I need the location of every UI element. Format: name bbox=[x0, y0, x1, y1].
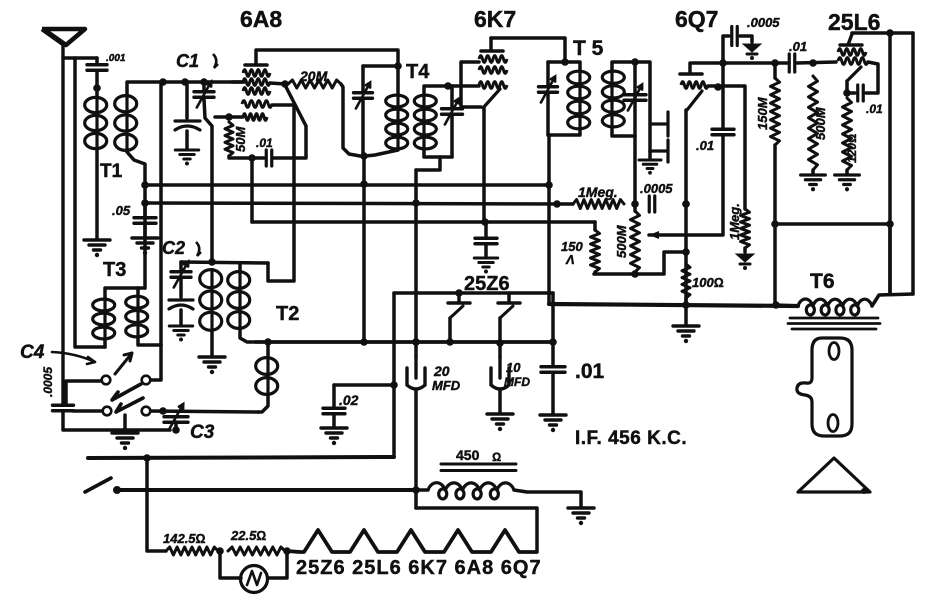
6K7 plate stub bbox=[489, 38, 493, 50]
node cath2 bus bbox=[496, 339, 504, 347]
node .02 tap bbox=[390, 381, 398, 389]
svg-text:100Ω: 100Ω bbox=[692, 275, 724, 290]
svg-text:450: 450 bbox=[456, 447, 480, 463]
wire volume bottom loop bbox=[594, 252, 686, 274]
wire T4 primary neck bbox=[396, 66, 400, 94]
svg-text:20: 20 bbox=[433, 363, 450, 379]
svg-text:6K7: 6K7 bbox=[474, 6, 516, 32]
ground band switch bbox=[112, 433, 138, 443]
wire 6A8 grid2 to 20M bbox=[270, 83, 285, 84]
wire 50M bottom bbox=[229, 156, 252, 158]
lamp branch right bbox=[268, 551, 287, 578]
svg-text:.001: .001 bbox=[106, 53, 126, 64]
switch contact bbox=[102, 376, 111, 385]
wire 6K7 plate to T5 bbox=[491, 38, 565, 62]
capacitor .05 lead bbox=[143, 203, 147, 216]
capacitor .001 bbox=[87, 65, 107, 71]
capacitor .0005 AVC bbox=[649, 196, 655, 212]
label C1 pointer bbox=[213, 54, 218, 68]
wire 6Q7 cathode down bbox=[684, 110, 688, 305]
wire 25Z6 left side bbox=[392, 293, 396, 457]
capacitor .01 output bbox=[789, 54, 795, 72]
capacitor C1 arrow bbox=[197, 82, 211, 108]
wire .0005 to ground bbox=[740, 36, 752, 42]
transformer T1 secondary winding bbox=[115, 96, 137, 112]
wire T2 secondary top bbox=[238, 263, 242, 270]
25L6 grid row 1 bbox=[838, 49, 866, 56]
node T4 sec top bbox=[444, 82, 452, 90]
6A8 grid row 2 bbox=[243, 79, 270, 86]
node .05 junction bbox=[141, 199, 149, 207]
switch contact bbox=[103, 407, 112, 416]
node lamp right bbox=[283, 547, 291, 555]
capacitor .02 bbox=[323, 408, 345, 414]
wire tickler bottom bbox=[258, 396, 268, 412]
25L6 cathode bbox=[847, 67, 861, 81]
node field coil left bbox=[412, 486, 420, 494]
capacitor C2 trimmer bbox=[169, 300, 193, 309]
ground T1 primary bbox=[84, 240, 110, 250]
wire T4 sec to 6K7 grid bbox=[448, 84, 479, 88]
120ohm to ground bbox=[845, 170, 849, 173]
svg-text:C2: C2 bbox=[162, 238, 185, 258]
6A8 signal grid row bbox=[243, 114, 267, 121]
node 6Q7 cath/H2 bbox=[682, 200, 690, 208]
svg-text:C1: C1 bbox=[176, 51, 199, 71]
antenna bbox=[42, 29, 85, 45]
node 6Q7 cath jog bbox=[682, 248, 690, 256]
25Z6 plate 2 bbox=[498, 301, 520, 304]
wire T1 primary to ground bbox=[95, 150, 99, 238]
node .0005/cath bbox=[682, 200, 690, 208]
svg-text:6Q7: 6Q7 bbox=[675, 6, 718, 32]
wire band select vertical bbox=[159, 82, 163, 345]
6K7 grid row 2 bbox=[479, 67, 507, 74]
100ohm to bus bbox=[684, 298, 688, 305]
capacitor C1 trimmer bbox=[175, 121, 200, 130]
capacitor .01 filter bbox=[541, 367, 565, 373]
wire 25Z6 right side bbox=[551, 293, 555, 342]
capacitor .01f to ground bbox=[551, 374, 555, 413]
wire 25Z6 cathode 1 bbox=[448, 318, 452, 342]
wire 6A8 plate to T4 bbox=[257, 50, 398, 64]
capacitor T5 sec arrow bbox=[628, 85, 642, 111]
capacitor C3 arrow bbox=[169, 404, 183, 430]
node output grid return bbox=[886, 220, 894, 228]
svg-text:.01: .01 bbox=[256, 136, 273, 150]
node 25Z6 plate 1 bbox=[455, 289, 463, 297]
svg-text:.01: .01 bbox=[789, 39, 807, 54]
wire .02 branch bbox=[334, 383, 394, 387]
capacitor T4 sec top lead bbox=[450, 86, 454, 108]
node bus/x416 bbox=[412, 338, 420, 346]
capacitor C3 stem bbox=[174, 422, 178, 430]
wire 150M top bbox=[773, 63, 777, 78]
capacitor .01 coupling bbox=[712, 129, 734, 135]
wire T1 secondary bottom bbox=[127, 152, 145, 203]
svg-text:.0005: .0005 bbox=[41, 367, 55, 397]
transformer T4 secondary winding bbox=[414, 95, 436, 107]
transformer T3 left winding bbox=[93, 299, 115, 311]
transformer T5 primary winding bbox=[568, 71, 590, 84]
node cath1 bus bbox=[446, 338, 454, 346]
ground 500M bbox=[801, 175, 826, 185]
25Z6 cathode 1 bbox=[450, 306, 463, 318]
svg-text:C3: C3 bbox=[190, 422, 215, 443]
transformer T2 primary winding bbox=[200, 270, 222, 288]
ground .01 filter bbox=[540, 415, 566, 425]
node 150M top bbox=[771, 59, 779, 67]
speaker voice coil assembly bbox=[797, 338, 852, 436]
switch blade lower bbox=[116, 398, 143, 412]
wire AVC bus H1 bbox=[145, 183, 549, 187]
svg-text:C4: C4 bbox=[20, 342, 45, 363]
capacitor T5 pri lead bbox=[546, 62, 550, 86]
capacitor .001 top lead bbox=[95, 58, 99, 64]
node 25L6 cathode bbox=[843, 89, 851, 97]
wire switch lower left bbox=[73, 409, 102, 413]
capacitor T4 sec arrow bbox=[445, 99, 459, 125]
wire bus to T6 bbox=[776, 305, 798, 306]
speaker top loop bbox=[829, 343, 839, 360]
wire switch to C3 bbox=[151, 411, 258, 412]
resistor 1Meg AVC bbox=[573, 200, 624, 209]
field coil right lead bbox=[514, 490, 581, 506]
wire plate to .0005 bbox=[723, 36, 729, 63]
trimmer to ground bbox=[185, 131, 189, 148]
node T5 primary top bbox=[561, 58, 569, 66]
6A8 grid row 3 bbox=[243, 88, 270, 95]
trimmer lead from bus bbox=[185, 82, 189, 118]
ground C2 bbox=[169, 326, 192, 335]
resistor heater dropping chain bbox=[287, 530, 537, 552]
capacitor .0005 plate bbox=[732, 27, 738, 46]
6Q7 diode plate 2 bbox=[650, 140, 668, 162]
transformer T6 primary bbox=[798, 299, 872, 315]
svg-text:Ω: Ω bbox=[492, 450, 501, 464]
500M to ground bbox=[811, 170, 815, 173]
node bus/T6 bbox=[772, 301, 780, 309]
capacitor T4 pri bottom lead bbox=[361, 99, 365, 153]
T6 core bbox=[788, 318, 880, 329]
capacitor .01 osc lead bbox=[252, 156, 264, 160]
switch blade middle bbox=[112, 384, 141, 400]
capacitor T4 secondary trim bbox=[442, 109, 463, 115]
inductor 450 ohm field coil bbox=[428, 483, 514, 499]
node tickler top bbox=[264, 338, 272, 346]
wire output drop 2 bbox=[911, 33, 915, 294]
wire switch to .0005 bbox=[66, 381, 101, 403]
svg-text:50M: 50M bbox=[233, 126, 248, 152]
capacitor T4 pri arrow bbox=[356, 83, 370, 109]
wire T5 primary right bbox=[565, 62, 580, 70]
wire T4 secondary top bbox=[424, 86, 448, 94]
wire 25Z6 cathode 2 bbox=[498, 318, 502, 343]
wire 20M to T4 bottom bbox=[341, 84, 360, 156]
capacitor .01 osc bbox=[266, 150, 272, 166]
capacitor C1 bottom lead bbox=[204, 99, 212, 262]
wire T5 top to diode bbox=[635, 62, 650, 151]
wire T4 sec bottom bbox=[424, 150, 452, 157]
6K7 grid row 1 bbox=[479, 56, 507, 63]
resistor 1Meg grid bbox=[741, 209, 750, 248]
C2 trimmer to ground bbox=[179, 310, 183, 324]
wire B+ bus bbox=[256, 340, 553, 344]
wire 6A8 grid4 left bbox=[215, 115, 243, 119]
wire switch drop bbox=[147, 458, 166, 551]
resistor 500M volume bbox=[631, 211, 640, 272]
wire .01 coupling top bbox=[721, 63, 725, 128]
svg-text:25Z6 25L6 6K7 6A8 6Q7: 25Z6 25L6 6K7 6A8 6Q7 bbox=[296, 557, 542, 579]
capacitor .0005 ant bbox=[53, 405, 74, 411]
ground T2 primary bbox=[199, 357, 225, 367]
svg-text:Λ: Λ bbox=[565, 252, 575, 267]
wire field coil drop bbox=[414, 490, 418, 508]
capacitor .01 cath right bbox=[866, 62, 878, 93]
svg-text:MFD: MFD bbox=[432, 378, 461, 393]
svg-text:T4: T4 bbox=[406, 61, 430, 83]
node .01 osc bbox=[248, 154, 256, 162]
resistor 100 ohm bbox=[682, 264, 690, 298]
25Z6 cathode 2 bbox=[500, 306, 513, 318]
wire .01 to H3 bus bbox=[250, 158, 254, 222]
antenna lead-in wire bbox=[61, 44, 64, 403]
25L6 grid row 2 bbox=[838, 58, 868, 65]
wire 6Q7 plate bus bbox=[692, 61, 789, 65]
node 500M screen bbox=[809, 59, 817, 67]
junction .001/T1 bbox=[93, 84, 101, 92]
ground 6K7 bypass bbox=[474, 258, 497, 267]
wire 150M bottom bbox=[773, 145, 777, 305]
node H2 1Meg bbox=[553, 200, 561, 208]
wire AVC feed bbox=[775, 222, 890, 226]
wire T3 right winding bottom bbox=[138, 338, 161, 345]
node B- bus ground tap bbox=[682, 301, 690, 309]
wire T5 to B+ bus bbox=[547, 135, 551, 304]
wire chain to B- bbox=[416, 508, 537, 552]
speaker cone dot bbox=[861, 488, 867, 494]
wire T2 secondary bottom bbox=[240, 330, 256, 342]
node 6Q7 grid bbox=[714, 83, 722, 91]
wire AC line 1 bbox=[88, 457, 394, 458]
switch wiper arrow top bbox=[115, 353, 132, 374]
wire x161 to switch bbox=[151, 345, 161, 380]
capacitor T4 primary trim bbox=[354, 93, 373, 99]
capacitor C2 bottom lead bbox=[179, 279, 183, 297]
capacitor 20MFD out bbox=[414, 390, 418, 490]
wire screen drop x416 bbox=[414, 170, 418, 342]
ground C1 trimmer bbox=[175, 150, 198, 159]
capacitor 10MFD to ground bbox=[498, 390, 502, 412]
volume top lead bbox=[633, 204, 637, 211]
transformer T2 secondary winding bbox=[228, 272, 250, 289]
capacitor C2 arrow bbox=[174, 262, 188, 288]
transformer T3 right winding bbox=[126, 296, 148, 308]
wire AVC bus H3 bbox=[252, 220, 595, 224]
capacitor T5 secondary trim bbox=[624, 95, 646, 101]
svg-text:.01: .01 bbox=[696, 138, 714, 153]
svg-text:.05: .05 bbox=[112, 203, 131, 218]
svg-text:I.F. 456 K.C.: I.F. 456 K.C. bbox=[575, 428, 687, 449]
svg-text:25L6: 25L6 bbox=[828, 9, 880, 35]
capacitor .05 bbox=[134, 218, 156, 224]
node C1 tap bbox=[200, 78, 208, 86]
wire 25L6 plate top bbox=[852, 31, 890, 35]
wire 25L6 cathode bbox=[845, 81, 849, 95]
node 20MFD tap bbox=[412, 338, 420, 346]
wire AVC to 150ohm bbox=[593, 222, 597, 230]
wire T5 primary top bbox=[548, 60, 565, 64]
wire 6A8 diag to .01 bbox=[285, 85, 306, 157]
node lamp left bbox=[216, 547, 224, 555]
capacitor .02 to ground bbox=[332, 415, 336, 426]
6Q7 grid row bbox=[681, 82, 708, 89]
node AVC tap bbox=[141, 181, 149, 189]
wire 25L6 top right bbox=[890, 31, 913, 35]
capacitor 10MFD lead bbox=[498, 343, 502, 357]
wire RF return vertical bbox=[75, 58, 105, 347]
capacitor C3 bbox=[164, 417, 188, 423]
resistor 142.5 ohm bbox=[166, 547, 218, 555]
capacitor .05 to ground bbox=[143, 225, 147, 236]
power switch contact bbox=[113, 486, 121, 494]
node 6A8 osc anode bbox=[281, 80, 289, 88]
switch contact bbox=[142, 407, 151, 416]
wire screen bus H2 bbox=[145, 203, 573, 204]
25L6 plate bbox=[840, 34, 862, 45]
ground 120 ohm bbox=[835, 175, 860, 185]
wire .01 to 25L6 grid bbox=[797, 62, 836, 63]
switch contact bbox=[142, 376, 151, 385]
svg-text:T3: T3 bbox=[103, 259, 126, 281]
svg-text:T 5: T 5 bbox=[573, 37, 604, 60]
6Q7 plate bbox=[680, 72, 702, 76]
resistor 150 ohm bbox=[591, 230, 600, 272]
svg-text:T2: T2 bbox=[276, 303, 299, 325]
svg-text:.01: .01 bbox=[866, 102, 883, 116]
capacitor bypass to ground bbox=[484, 245, 488, 256]
6Q7 diode plate 1 bbox=[650, 112, 668, 136]
svg-text:.01: .01 bbox=[575, 360, 605, 383]
svg-text:.0005: .0005 bbox=[640, 181, 673, 196]
wire T4 primary bottom bbox=[366, 150, 398, 156]
label C4 pointer arrow bbox=[52, 352, 95, 364]
x890 to T6 bbox=[888, 224, 892, 294]
node T4 primary top bbox=[394, 62, 402, 70]
6A8 oscillator grid row bbox=[242, 101, 272, 108]
wire top bus to 6A8 bbox=[232, 80, 243, 84]
node switch feed bbox=[143, 454, 151, 462]
6K7 grid row 3 bbox=[479, 82, 507, 89]
speaker bottom loop bbox=[828, 415, 838, 432]
node C1 trimmer tap bbox=[181, 78, 189, 86]
node 25L6 top bbox=[886, 29, 894, 37]
transformer T4 primary winding bbox=[386, 95, 408, 107]
svg-text:.02: .02 bbox=[339, 392, 359, 408]
wire x145 down bbox=[143, 203, 147, 288]
node volume bottom bbox=[631, 270, 639, 278]
capacitor .02 lead bbox=[332, 385, 336, 407]
power switch blade bbox=[85, 478, 111, 492]
6Q7 plate stub bbox=[688, 63, 692, 73]
capacitor T4 sec bottom lead bbox=[450, 115, 454, 157]
capacitor 20MFD lead bbox=[414, 342, 418, 357]
wire 6K7 cathode down bbox=[482, 108, 486, 222]
node T5 sec top bbox=[631, 58, 639, 66]
switch ground stem bbox=[123, 415, 127, 431]
transformer T1 primary winding bbox=[85, 97, 107, 112]
6K7 plate bbox=[481, 49, 503, 53]
transformer T2 tickler winding bbox=[256, 358, 278, 375]
wire .0005 to bottom bbox=[63, 412, 170, 431]
6A8 grid row 1 bbox=[243, 70, 270, 77]
capacitor C1 tuning bbox=[194, 92, 214, 98]
6K7 cathode bbox=[483, 89, 500, 108]
label C2 pointer bbox=[196, 242, 201, 256]
capacitor C1 top lead bbox=[202, 82, 206, 91]
6A8 plate stub bbox=[254, 50, 258, 63]
resistor 22.5 ohm bbox=[228, 547, 285, 555]
capacitor T5 primary trim bbox=[539, 87, 558, 93]
wire .01 coupling bottom bbox=[649, 136, 723, 235]
ground field coil bbox=[568, 508, 594, 518]
capacitor .01 cathode bbox=[858, 85, 864, 101]
wire T3 right winding top bbox=[136, 288, 140, 295]
capacitor 6K7 bypass lead bbox=[484, 222, 488, 237]
wire tickler top bbox=[266, 342, 270, 356]
wire T5 secondary top bbox=[612, 62, 635, 70]
wire antenna top to .001 bbox=[63, 56, 97, 60]
svg-text:22.5Ω: 22.5Ω bbox=[230, 528, 266, 543]
wire B- bus bbox=[549, 304, 798, 306]
150ohm bottom bbox=[593, 272, 597, 274]
wire C2 top bbox=[181, 262, 268, 263]
svg-text:T1: T1 bbox=[100, 161, 123, 182]
wire 25Z6 top bbox=[394, 291, 553, 295]
node 150M/AVC bbox=[771, 220, 779, 228]
capacitor .01f lead bbox=[551, 342, 555, 364]
capacitor .01 cath lead bbox=[847, 91, 855, 95]
capacitor T5 pri bottom lead bbox=[546, 93, 550, 135]
wire output B+ drop bbox=[888, 33, 892, 294]
field coil left lead bbox=[416, 488, 428, 492]
node 50M top bbox=[225, 113, 233, 121]
capacitor .001 bottom lead bbox=[95, 71, 99, 96]
25Z6 plate 1 bbox=[448, 301, 470, 304]
capacitor 10MFD bbox=[491, 357, 509, 389]
node T2 primary top bbox=[208, 258, 216, 266]
node top RF bus bbox=[159, 78, 167, 86]
speaker cone triangle bbox=[798, 458, 870, 492]
node H2/x413 bbox=[412, 199, 420, 207]
svg-text:142.5Ω: 142.5Ω bbox=[163, 531, 206, 546]
svg-text:500M: 500M bbox=[614, 224, 629, 258]
wire T5 sec to volume bbox=[633, 62, 637, 204]
node detector out bbox=[631, 200, 639, 208]
node H1 right bbox=[545, 181, 553, 189]
ground B- bus bbox=[673, 326, 699, 336]
node H1/T4 bbox=[360, 180, 368, 188]
capacitor T4 pri lead bbox=[361, 66, 365, 92]
resistor 150M bbox=[771, 78, 780, 145]
svg-text:1Meg.: 1Meg. bbox=[578, 184, 618, 200]
wire T2 primary bottom bbox=[210, 332, 214, 355]
diode ground stem bbox=[648, 151, 652, 158]
svg-text:T6: T6 bbox=[810, 270, 835, 293]
ground .05 bbox=[132, 238, 158, 248]
ground .0005 bbox=[743, 44, 761, 52]
wire T3 winding tops bbox=[105, 288, 145, 298]
